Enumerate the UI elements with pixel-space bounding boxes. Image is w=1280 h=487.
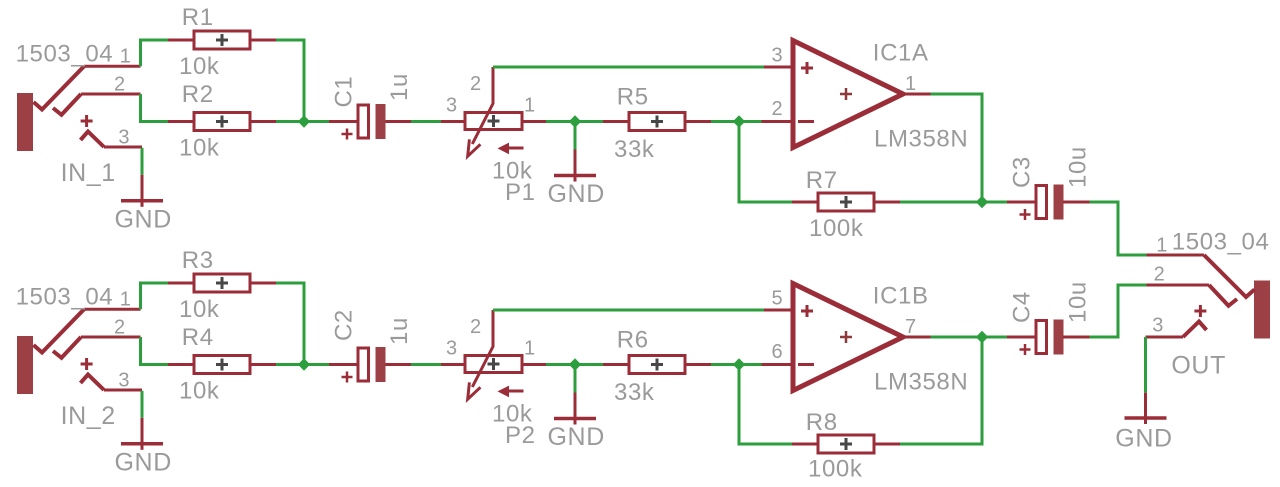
op-amp IC1A pin 2 stub [762, 120, 794, 123]
svg-text:6: 6 [772, 341, 783, 363]
svg-text:IN_2: IN_2 [61, 402, 116, 430]
connector J1 switch contact [81, 132, 105, 148]
potentiometer P2 body [465, 356, 522, 373]
capacitor C2 right plate [376, 347, 386, 382]
svg-text:3: 3 [772, 45, 783, 67]
svg-text:33k: 33k [614, 379, 655, 406]
svg-text:3: 3 [118, 126, 129, 148]
svg-text:1: 1 [1156, 235, 1167, 257]
svg-text:100k: 100k [809, 215, 864, 242]
svg-text:R7: R7 [806, 167, 838, 194]
junction node A1 [569, 115, 581, 127]
wire node MIX2 to C2 [304, 363, 329, 366]
svg-text:R8: R8 [806, 409, 838, 436]
connector OUT body [1254, 281, 1270, 339]
wire node B1 down to R7 [739, 122, 792, 203]
svg-text:10u: 10u [1065, 146, 1092, 188]
pin wire R2 left [168, 120, 194, 123]
svg-text:5: 5 [772, 288, 783, 310]
pin wire R7 left [792, 201, 818, 204]
junction node MIX2 [298, 358, 310, 370]
ground GND at OUT bar [1125, 416, 1167, 420]
potentiometer P2 adjust arrow [507, 390, 524, 393]
wire IC1B output [931, 336, 983, 339]
pin wire C3 right [1063, 201, 1090, 204]
pin wire R1 left [168, 39, 194, 42]
connector OUT ring contact [1209, 285, 1237, 306]
resistor R3 [194, 274, 250, 292]
capacitor C4 polarity + [1020, 344, 1031, 355]
capacitor C3 right plate [1054, 185, 1064, 220]
svg-text:C2: C2 [331, 309, 358, 341]
wire C4 to OUT pin2 [1090, 285, 1147, 337]
op-amp IC1B pin 5 stub [764, 309, 793, 312]
potentiometer P1 body [465, 113, 522, 130]
wire R2 to node MIX1 [276, 120, 304, 123]
wire node A1 to R5 [575, 120, 603, 123]
svg-text:2: 2 [470, 316, 481, 338]
pin wire R3 left [168, 282, 194, 285]
capacitor C1 left plate [358, 105, 369, 138]
svg-text:10k: 10k [179, 53, 220, 80]
svg-text:R1: R1 [182, 4, 214, 31]
connector J2 ring contact [53, 337, 81, 358]
ground GND at node A2 pin [574, 393, 577, 425]
wire node B1 to IC1A inverting input [739, 120, 762, 123]
op-amp IC1A output pin 1 [903, 93, 931, 96]
op-amp IC1A pin 3 stub [764, 66, 793, 69]
ground GND at OUT pin [1144, 393, 1147, 424]
wire node MIX1 to C1 [304, 120, 329, 123]
capacitor C3 polarity + [1020, 209, 1031, 220]
wire to ground [574, 123, 577, 150]
wire IN_1 pin1 to R1 [141, 40, 169, 66]
ground GND at node A1 bar [554, 174, 596, 178]
pin wire R4 left [168, 363, 194, 366]
connector J1 origin + [81, 115, 93, 127]
svg-text:GND: GND [115, 448, 172, 476]
svg-text:LM358N: LM358N [874, 126, 968, 153]
svg-text:GND: GND [1115, 425, 1172, 453]
wire C2 to P2 [411, 363, 441, 366]
svg-text:R4: R4 [182, 324, 214, 351]
svg-text:LM358N: LM358N [874, 369, 968, 396]
potentiometer P1 wiper arrowhead [468, 139, 481, 156]
svg-text:C4: C4 [1009, 291, 1036, 323]
op-amp IC1B output pin 7 [903, 336, 931, 339]
junction node C1OUT [976, 196, 988, 208]
wire node B2 to IC1B inverting input [739, 363, 762, 366]
svg-text:P1: P1 [505, 179, 536, 206]
pin wire R4 right [250, 363, 276, 366]
potentiometer P2 wiper [472, 347, 493, 388]
svg-text:1u: 1u [386, 317, 413, 345]
pin wire C3 left [1007, 201, 1036, 204]
potentiometer P2 wiper arrowhead [468, 382, 481, 399]
svg-text:2: 2 [772, 98, 783, 120]
resistor R2 [194, 113, 250, 131]
resistor R5 [629, 113, 685, 131]
ground GND at IN_1 pin [141, 175, 144, 207]
pin wire R3 right [250, 282, 276, 285]
resistor R1 [194, 31, 250, 49]
junction node B1 [733, 115, 745, 127]
svg-text:10k: 10k [179, 378, 220, 405]
op-amp IC1B pin 6 stub [762, 363, 794, 366]
op-amp IC1A - input mark [798, 120, 814, 123]
pin wire C2 left [329, 363, 358, 366]
potentiometer P1 pin 2 [492, 67, 495, 104]
wire R6 to node B2 [711, 363, 739, 366]
pin wire R2 right [250, 120, 276, 123]
connector OUT pin 2 [1147, 284, 1210, 287]
connector J1 body [17, 93, 33, 151]
capacitor C4 right plate [1054, 320, 1064, 355]
svg-text:1u: 1u [386, 73, 413, 101]
capacitor C4 left plate [1036, 321, 1047, 354]
connector OUT tip contact [1204, 255, 1255, 297]
pin wire C2 right [386, 363, 412, 366]
wire OUT pin3 to ground [1144, 337, 1147, 393]
svg-text:R5: R5 [617, 84, 649, 111]
connector J2 origin + [81, 358, 93, 370]
svg-text:R3: R3 [182, 247, 214, 274]
connector J1 ring contact [53, 94, 81, 115]
pin wire P2 pin3 [441, 363, 465, 366]
junction node MIX1 [298, 115, 310, 127]
wire P1 wiper to IC1A noninverting input [493, 66, 764, 69]
wire node C2OUT to C4 [982, 336, 1007, 339]
wire R5 to node B1 [711, 120, 739, 123]
pin wire R5 left [603, 120, 629, 123]
wire R1 to node MIX1 [276, 40, 304, 122]
capacitor C2 left plate [358, 348, 369, 381]
wire IN_2 pin1 to R3 [141, 283, 169, 309]
op-amp IC1A origin + [840, 88, 852, 100]
connector J2 pin 1 [84, 308, 141, 311]
svg-text:7: 7 [905, 316, 916, 338]
svg-text:1: 1 [524, 95, 535, 117]
resistor R8 [818, 435, 874, 453]
op-amp IC1B origin + [840, 331, 852, 343]
connector J1 tip contact [34, 66, 85, 109]
pin wire P1 pin1 [522, 120, 546, 123]
op-amp IC1B - input mark [798, 363, 814, 366]
svg-text:3: 3 [1152, 314, 1163, 336]
junction node C2OUT [976, 331, 988, 343]
wire P2 to node A2 [546, 363, 575, 366]
wire IN_2 pin2 down [141, 337, 169, 365]
wire R3 to node MIX2 [276, 283, 304, 365]
wire C3 to OUT pin1 [1090, 202, 1147, 255]
wire to ground [141, 148, 144, 175]
svg-text:1: 1 [524, 338, 535, 360]
svg-text:3: 3 [446, 338, 457, 360]
ground GND at IN_1 bar [121, 199, 163, 203]
wire P2 wiper to IC1B noninverting input [493, 309, 764, 312]
svg-text:10k: 10k [179, 135, 220, 162]
svg-text:GND: GND [548, 180, 605, 208]
wire node B2 down to R8 [739, 365, 792, 445]
svg-text:IC1A: IC1A [873, 40, 929, 67]
svg-text:1503_04: 1503_04 [16, 283, 114, 310]
wire IC1A output down [931, 94, 983, 202]
pin wire R1 right [250, 39, 276, 42]
ground GND at IN_2 pin [141, 418, 144, 450]
svg-text:3: 3 [446, 95, 457, 117]
connector J1 pin 3 [104, 146, 142, 149]
wire to ground [574, 366, 577, 393]
capacitor C2 polarity + [342, 372, 353, 383]
resistor R4 [194, 356, 250, 374]
connector OUT origin + [1194, 305, 1206, 317]
op-amp IC1A triangle [793, 41, 903, 148]
connector J2 pin 3 [104, 389, 142, 392]
svg-text:100k: 100k [808, 456, 863, 483]
wire IN_1 pin2 down [141, 94, 169, 122]
ground GND at IN_2 bar [121, 442, 163, 446]
potentiometer P1 wiper [472, 104, 493, 145]
pin wire R5 right [685, 120, 711, 123]
junction node B2 [733, 358, 745, 370]
svg-text:C1: C1 [331, 76, 358, 108]
svg-text:2: 2 [114, 316, 125, 338]
svg-text:R2: R2 [182, 81, 214, 108]
wire R7 to node C1OUT [900, 201, 982, 204]
svg-text:1503_04: 1503_04 [16, 40, 114, 67]
svg-text:C3: C3 [1009, 156, 1036, 188]
svg-text:3: 3 [118, 369, 129, 391]
connector OUT switch contact [1183, 322, 1207, 338]
potentiometer P1 adjust arrow [507, 147, 524, 150]
svg-text:1: 1 [905, 73, 916, 95]
pin wire C4 left [1007, 336, 1036, 339]
connector J2 switch contact [81, 375, 105, 391]
svg-text:GND: GND [548, 423, 605, 451]
pin wire R8 left [792, 443, 818, 446]
pin wire P1 pin3 [441, 120, 465, 123]
svg-text:10u: 10u [1065, 281, 1092, 323]
junction node A2 [569, 358, 581, 370]
op-amp IC1B + input mark [801, 305, 813, 317]
ground GND at node A1 pin [574, 150, 577, 182]
svg-text:1: 1 [120, 288, 131, 310]
wire R8 to node C2OUT [900, 337, 982, 444]
pin wire P2 pin1 [522, 363, 546, 366]
svg-text:2: 2 [1154, 263, 1165, 285]
pin wire C1 right [386, 120, 412, 123]
connector OUT pin 1 [1147, 254, 1205, 257]
wire P1 to node A1 [546, 120, 575, 123]
svg-text:IN_1: IN_1 [61, 159, 116, 187]
pin wire C4 right [1063, 336, 1090, 339]
connector OUT pin 3 [1146, 336, 1184, 339]
svg-text:P2: P2 [505, 422, 536, 449]
connector J1 pin 1 [84, 65, 141, 68]
op-amp IC1B triangle [793, 284, 903, 391]
wire C1 to P1 [411, 120, 441, 123]
op-amp IC1A + input mark [801, 62, 813, 74]
capacitor C1 right plate [376, 104, 386, 139]
pin wire C1 left [329, 120, 358, 123]
pin wire R7 right [874, 201, 900, 204]
potentiometer P1 origin + [488, 115, 500, 127]
potentiometer P2 pin 2 [492, 310, 495, 347]
wire R4 to node MIX2 [276, 363, 304, 366]
svg-text:1503_04: 1503_04 [1172, 229, 1270, 256]
resistor R6 [629, 356, 685, 374]
potentiometer P2 origin + [488, 358, 500, 370]
svg-text:R6: R6 [617, 327, 649, 354]
pin wire R8 right [874, 443, 900, 446]
pin wire R6 left [603, 363, 629, 366]
wire node A2 to R6 [575, 363, 603, 366]
wire node C1OUT to C3 [982, 201, 1007, 204]
connector J2 body [17, 336, 33, 394]
capacitor C3 left plate [1036, 186, 1047, 219]
svg-text:OUT: OUT [1171, 352, 1226, 380]
capacitor C1 polarity + [342, 129, 353, 140]
svg-text:2: 2 [470, 73, 481, 95]
svg-text:2: 2 [114, 73, 125, 95]
connector J1 pin 2 [81, 93, 141, 96]
pin wire R6 right [685, 363, 711, 366]
connector J2 tip contact [34, 309, 85, 352]
svg-text:10k: 10k [179, 296, 220, 323]
svg-text:33k: 33k [614, 136, 655, 163]
resistor R7 [818, 193, 874, 211]
wire to ground [141, 391, 144, 418]
connector J2 pin 2 [81, 336, 141, 339]
svg-text:1: 1 [120, 45, 131, 67]
svg-text:GND: GND [115, 205, 172, 233]
svg-text:IC1B: IC1B [873, 283, 929, 310]
ground GND at node A2 bar [554, 417, 596, 421]
